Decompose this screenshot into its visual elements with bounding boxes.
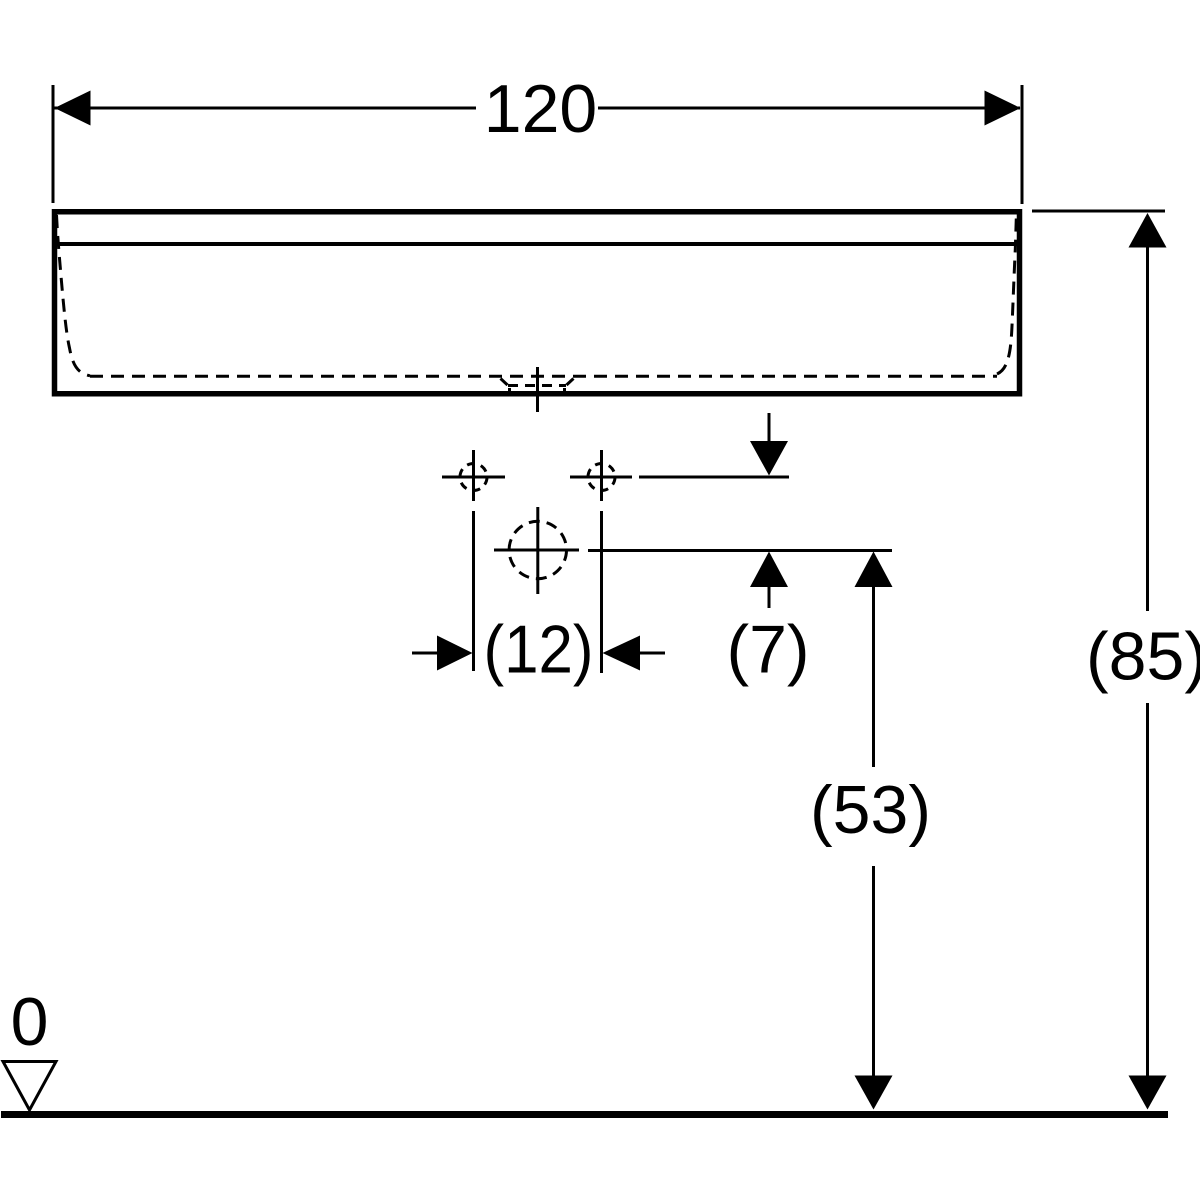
dimension 53 down arrow	[855, 1076, 893, 1110]
basin interior hidden outline right	[997, 215, 1016, 374]
dimension 120 left arrow	[55, 91, 91, 126]
svg-text:(7): (7)	[726, 612, 809, 688]
dimension 85 line lower segment	[1146, 703, 1149, 1077]
tap hole right dashed circle	[588, 464, 615, 491]
basin interior hidden outline bottom	[90, 375, 997, 378]
dimension 120 line right segment	[598, 107, 1020, 110]
tap hole left crosshair horizontal	[442, 476, 505, 479]
svg-text:(12): (12)	[484, 612, 594, 688]
drain hole crosshair horizontal	[494, 549, 579, 552]
tap hole right extension line	[600, 511, 603, 673]
svg-text:(85): (85)	[1086, 619, 1200, 695]
basin inner rim line	[57, 242, 1017, 246]
dimension 53 label	[810, 772, 931, 848]
dimension 7 leader line	[768, 587, 771, 608]
tap hole left extension line	[472, 511, 475, 671]
svg-text:120: 120	[484, 71, 597, 147]
tap level down arrow	[750, 441, 788, 476]
dimension 12 right leader line	[640, 652, 665, 655]
drain hidden right vertical dash	[563, 388, 566, 394]
dimension 53 up arrow	[855, 552, 893, 588]
dimension 120 right arrow	[985, 91, 1021, 126]
dimension 12 right arrow	[603, 636, 641, 671]
svg-text:0: 0	[11, 984, 49, 1060]
dimension 7 label	[726, 612, 809, 688]
dimension 85 up arrow	[1129, 213, 1167, 248]
dimension 120 label	[484, 71, 597, 147]
dimension 53 line lower segment	[872, 866, 875, 1077]
dimension 120 line left segment	[54, 107, 476, 110]
tap hole right crosshair vertical	[600, 450, 603, 501]
dimension 120 right extension line	[1021, 85, 1024, 204]
tap level reference line	[639, 476, 789, 479]
dimension 85 down arrow	[1129, 1076, 1167, 1110]
dimension 85 line upper segment	[1146, 247, 1149, 611]
dimension 12 label	[484, 612, 594, 688]
dimension 12 left arrow	[437, 636, 473, 671]
dimension 12 left leader line	[412, 652, 437, 655]
datum triangle symbol	[3, 1062, 56, 1111]
dimension 85 label	[1086, 619, 1200, 695]
tap level down arrow leader	[768, 413, 771, 445]
svg-text:(53): (53)	[810, 772, 931, 848]
tap hole left dashed circle	[460, 464, 487, 491]
dimension 53 line upper segment	[872, 587, 875, 767]
drain hidden outline right slant	[567, 379, 574, 386]
tap hole left crosshair vertical	[472, 450, 475, 501]
drain hole dashed circle	[509, 521, 566, 578]
dimension 120 left extension line	[52, 85, 55, 203]
basin interior hidden outline left	[57, 215, 91, 376]
datum zero label	[11, 984, 49, 1060]
dimension 85 top extension line	[1032, 210, 1165, 213]
drain hidden outline bottom	[508, 384, 566, 387]
drain hidden outline left slant	[501, 379, 508, 386]
drain hole crosshair vertical	[536, 507, 539, 594]
drain hidden left vertical dash	[508, 388, 511, 394]
drain level reference line	[588, 549, 892, 552]
basin outer outline	[55, 212, 1020, 394]
floor baseline	[1, 1111, 1168, 1118]
drain centerline	[536, 367, 539, 412]
dimension 7 up arrow	[750, 552, 788, 588]
tap hole right crosshair horizontal	[570, 476, 632, 479]
